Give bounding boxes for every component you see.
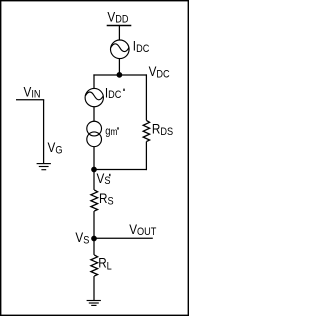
wire top horizontal VDC rail — [93, 74, 147, 76]
junction node VS' — [91, 167, 97, 173]
junction node VS — [91, 236, 97, 242]
wire IDC' source to gm' source — [93, 107, 95, 122]
prime mark of VS' — [109, 174, 111, 176]
wire IDC source to node VDC — [118, 59, 120, 75]
power VDD bar — [107, 25, 132, 27]
wire RDS to VS' rail — [145, 142, 147, 171]
wire RL to ground — [93, 276, 95, 300]
resistor RDS — [143, 120, 149, 141]
wire VIN horizontal — [16, 99, 44, 101]
wire VDC rail down to IDC' source — [93, 74, 95, 88]
wire RS to node VS — [93, 211, 95, 255]
resistor RS — [91, 190, 98, 211]
wire VOUT tap — [94, 237, 153, 239]
resistor RL — [91, 255, 98, 276]
ground left — [37, 164, 51, 170]
wire VS' horizontal rail — [94, 169, 147, 171]
current source IDC' — [85, 88, 103, 106]
wire VIN down to ground — [43, 100, 45, 163]
prime mark of IDC' — [123, 89, 125, 91]
wire gm' source to node VS' — [93, 146, 95, 169]
current source IDC — [111, 40, 130, 59]
wire VS' to RS — [93, 170, 95, 190]
svg-text:gm: gm — [105, 126, 118, 138]
prime mark of gm' — [117, 127, 119, 129]
ground bottom — [87, 301, 101, 306]
wire VDC corner down to RDS — [145, 74, 147, 120]
wire VDD bar to IDC source — [118, 26, 120, 41]
border frame — [1, 1, 189, 316]
junction node VDC — [117, 72, 123, 78]
dependent source gm' — [87, 121, 102, 146]
